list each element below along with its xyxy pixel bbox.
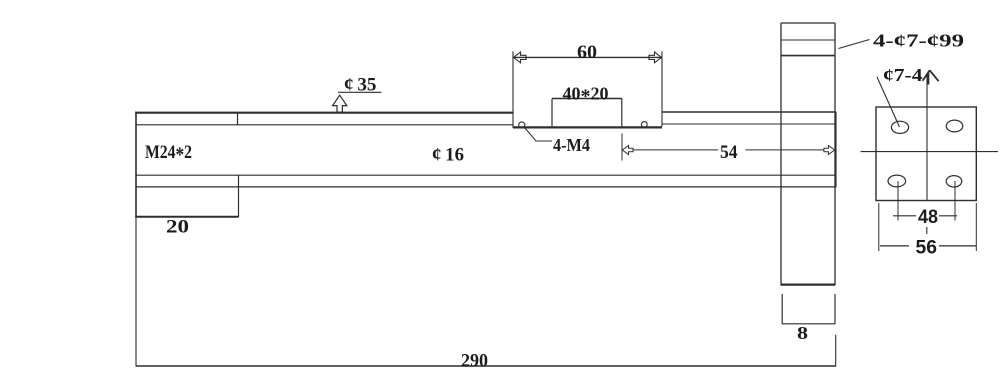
leader line to 4-d7-d99 — [839, 40, 870, 49]
dim 60 line — [513, 56, 662, 58]
flange bottom edge (thick) — [781, 283, 836, 285]
shaft end face edge over flange right — [835, 112, 837, 188]
shaft top outer line (right of platform, through flange) — [662, 111, 835, 113]
dia35 open up arrow — [333, 95, 347, 112]
shaft top inner line (left of platform) — [136, 124, 513, 126]
svg-text:48: 48 — [918, 207, 938, 228]
4-M4 leader line — [525, 128, 553, 142]
flange top edge — [781, 22, 835, 24]
dim 56 right extension — [975, 203, 977, 251]
leader line to top-left hole — [877, 77, 900, 127]
dim 56 line left segment — [880, 245, 909, 247]
svg-text:40*20: 40*20 — [563, 83, 609, 107]
up-arrow glyph vertical tail — [927, 73, 929, 85]
M4 hole circle right — [641, 122, 647, 128]
hole top-left — [891, 121, 908, 133]
dim 56 left extension — [878, 203, 880, 251]
flange top band line 2 — [781, 55, 835, 57]
shaft top outer line (left of platform) — [135, 112, 513, 114]
lower-left step bottom edge — [135, 216, 238, 218]
dim 48 right extension — [954, 181, 956, 221]
M4 hole circle left — [519, 122, 525, 128]
platform flat surface (thick) — [513, 126, 662, 128]
dim 290 right extension line — [835, 335, 837, 367]
svg-text:290: 290 — [461, 350, 488, 371]
hole bottom-right — [946, 176, 962, 187]
dim 290 line — [136, 365, 836, 367]
svg-text:¢7-4: ¢7-4 — [883, 65, 923, 85]
flange right edge — [834, 23, 836, 285]
dim 54 right arrow — [824, 146, 835, 155]
up-arrow glyph on center line (CJK style) — [923, 70, 939, 81]
flange left edge — [780, 23, 782, 285]
lower U bracket right edge — [834, 294, 836, 324]
svg-text:M24*2: M24*2 — [145, 142, 192, 167]
end view square outline — [876, 107, 976, 201]
svg-text:¢ 35: ¢ 35 — [344, 75, 377, 96]
end view horizontal center line — [861, 151, 999, 153]
block 40*20 left edge — [551, 99, 553, 128]
thread end divider (bottom, down lower step) — [238, 175, 240, 217]
dim 54 line left segment — [633, 149, 718, 151]
lower U bracket left edge — [781, 294, 783, 324]
svg-text:8: 8 — [797, 323, 808, 343]
dim 56 line right segment — [939, 245, 976, 247]
shaft left end vertical edge — [135, 112, 137, 218]
hole bottom-left — [888, 175, 906, 187]
shaft bottom outer line — [136, 186, 835, 188]
thread end divider (top) — [237, 112, 239, 125]
dim 54 line right segment — [746, 149, 825, 151]
dim 48 left extension — [897, 181, 899, 221]
svg-text:54: 54 — [720, 142, 738, 163]
dim 60 left arrow — [514, 52, 527, 63]
dim 54 left extension line — [621, 134, 623, 161]
hole top-right — [946, 120, 963, 132]
svg-text:¢ 16: ¢ 16 — [432, 145, 464, 166]
dim 48 line right segment — [939, 215, 957, 217]
dim 290 left extension line — [135, 218, 137, 367]
svg-text:60: 60 — [577, 42, 597, 63]
svg-text:4-M4: 4-M4 — [553, 135, 590, 155]
platform right edge / dim 60 extension — [661, 51, 663, 126]
end view vertical center line — [926, 74, 928, 201]
dim 54 left arrow — [622, 146, 633, 155]
shaft bottom inner line — [136, 174, 835, 176]
svg-text:4-¢7-¢99: 4-¢7-¢99 — [873, 31, 964, 51]
svg-text:56: 56 — [916, 238, 938, 259]
platform left edge / dim 60 extension — [512, 51, 514, 127]
dim 60 right arrow — [649, 52, 662, 63]
shaft top inner line (right of platform, through flange) — [662, 123, 835, 125]
dim 48 line left segment — [893, 215, 916, 217]
lower U bracket bottom edge — [782, 323, 835, 325]
end view vertical center line dash below — [926, 227, 928, 234]
svg-text:20: 20 — [166, 217, 189, 238]
flange top band line 1 — [781, 39, 835, 41]
block 40*20 right edge — [621, 99, 623, 128]
dia35 underline — [338, 91, 382, 93]
block 40*20 top edge — [552, 98, 622, 100]
